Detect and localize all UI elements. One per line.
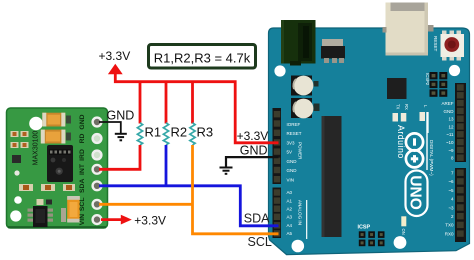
module silkscreen MAX30100 text xyxy=(33,131,40,166)
svg-text:ICSP: ICSP xyxy=(358,224,371,230)
wire: R2 drop to SDA line (blue) xyxy=(165,145,168,186)
svg-text:RX: RX xyxy=(404,104,409,110)
mounting hole bottom middle-left xyxy=(292,240,305,253)
DIGITAL silkscreen label xyxy=(429,140,434,176)
wire: R3 to Arduino A5 (orange) xyxy=(193,145,279,234)
digital header lower labels xyxy=(445,171,454,237)
MAX30100 sensor module board xyxy=(7,108,108,228)
svg-text:12: 12 xyxy=(448,124,454,129)
UNO badge xyxy=(406,171,428,217)
ICSP2 silkscreen label xyxy=(425,73,430,86)
svg-text:RD: RD xyxy=(79,134,86,144)
value box R1,R2,R3 = 4.7k xyxy=(149,45,256,69)
TX RX LEDs xyxy=(393,104,410,122)
wire: bus drop to R2 xyxy=(165,82,168,124)
svg-text:ICSP2: ICSP2 xyxy=(425,73,430,86)
GND label at Arduino xyxy=(240,143,268,157)
SMD resistor row on module xyxy=(19,184,75,191)
silkscreen line analog xyxy=(306,200,307,239)
POWER silkscreen label xyxy=(298,142,303,160)
svg-text:Arduino: Arduino xyxy=(396,125,406,159)
USB connector xyxy=(383,3,434,56)
MAX30100 sensor chip U1 xyxy=(47,145,73,182)
mounting hole bottom middle-right xyxy=(394,236,407,249)
svg-text:MAX30100: MAX30100 xyxy=(33,131,40,166)
capacitor C-top1 on module xyxy=(42,113,71,127)
svg-text:A4: A4 xyxy=(287,223,293,228)
small SMD parts near caps xyxy=(314,81,320,111)
microcontroller IC ATmega328 xyxy=(322,116,342,237)
svg-text:13: 13 xyxy=(448,117,454,122)
node: VIN +3.3V arrow xyxy=(121,215,132,225)
svg-text:SDA: SDA xyxy=(244,211,270,225)
power header strip xyxy=(273,108,282,184)
ON LED xyxy=(401,216,407,234)
digital header upper labels xyxy=(441,101,454,161)
GND label top-left xyxy=(107,109,135,123)
Arduino logo text xyxy=(396,125,406,159)
digital header strip lower xyxy=(455,168,466,242)
USB interface chip xyxy=(387,78,407,99)
ICSP2 header xyxy=(430,72,448,97)
+3.3V label top xyxy=(99,49,131,63)
wire: bus drop to R3 xyxy=(191,82,194,124)
svg-text:5V: 5V xyxy=(287,150,293,155)
svg-text:IOREF: IOREF xyxy=(287,122,301,127)
node: +3.3V arrow xyxy=(108,64,123,74)
ICSP silkscreen label xyxy=(358,224,371,230)
resistor R1 xyxy=(137,123,142,145)
wire: +3.3V bus (red) xyxy=(115,74,278,143)
svg-text:R2: R2 xyxy=(171,125,188,140)
module pin RD xyxy=(93,134,102,143)
svg-text:R3: R3 xyxy=(197,125,214,140)
analog header strip xyxy=(273,188,282,239)
resistor R3 xyxy=(190,123,195,145)
+3.3V label at Arduino xyxy=(237,129,269,143)
R2 label xyxy=(171,125,188,140)
mounting hole bottom-left xyxy=(10,196,22,221)
svg-text:+3.3V: +3.3V xyxy=(99,49,131,63)
wire: R1 to module INT pin (red) xyxy=(99,145,140,169)
svg-text:DIGITAL (PWM~): DIGITAL (PWM~) xyxy=(429,140,434,176)
wire: module GND to ground xyxy=(99,122,121,133)
small SMD resistors left cluster xyxy=(11,131,29,148)
module pin SCL xyxy=(93,200,102,209)
ground symbol at Arduino xyxy=(220,168,233,174)
RESET silkscreen label xyxy=(433,36,438,52)
svg-text:SCL: SCL xyxy=(248,235,272,249)
tantalum capacitor C3 on module xyxy=(61,196,80,223)
wire: module SCL to R3 drop (orange) xyxy=(99,203,193,206)
svg-text:3V3: 3V3 xyxy=(287,141,296,146)
resistor R2 xyxy=(163,123,168,145)
voltage regulator xyxy=(321,39,345,63)
digital header strip upper xyxy=(455,83,466,162)
module bottom edge shading xyxy=(8,226,106,228)
svg-text:UNO: UNO xyxy=(406,175,423,209)
svg-text:R1,R2,R3 = 4.7k: R1,R2,R3 = 4.7k xyxy=(154,51,251,66)
svg-text:~11: ~11 xyxy=(446,132,454,137)
svg-text:ON: ON xyxy=(401,229,406,235)
svg-text:~6: ~6 xyxy=(448,179,454,184)
ICSP header xyxy=(359,231,385,246)
svg-text:TX0: TX0 xyxy=(445,223,454,228)
mounting hole near power jack xyxy=(274,65,285,76)
svg-text:RESET: RESET xyxy=(287,131,302,136)
svg-text:A3: A3 xyxy=(287,215,293,220)
power header labels xyxy=(287,122,302,183)
svg-text:SDA: SDA xyxy=(79,179,86,193)
Arduino UNO board xyxy=(269,28,470,255)
svg-text:TX: TX xyxy=(396,104,401,110)
+3.3V label bottom xyxy=(134,213,166,227)
svg-text:SCL: SCL xyxy=(79,197,86,211)
module pin INT xyxy=(93,165,102,174)
svg-text:R1: R1 xyxy=(145,125,162,140)
svg-text:VIN: VIN xyxy=(287,177,295,182)
svg-text:ANALOG IN: ANALOG IN xyxy=(298,200,303,225)
IC U2 on module xyxy=(28,199,54,227)
SCL label xyxy=(248,235,272,249)
module pin SDA xyxy=(93,181,102,190)
svg-text:GND: GND xyxy=(240,143,268,157)
ground symbol left xyxy=(115,134,127,141)
svg-text:POWER: POWER xyxy=(298,142,303,160)
R3 label xyxy=(197,125,214,140)
svg-text:+3.3V: +3.3V xyxy=(134,213,166,227)
svg-text:INT: INT xyxy=(79,163,86,175)
svg-text:IRD: IRD xyxy=(79,149,86,161)
svg-text:~9: ~9 xyxy=(448,148,454,153)
wire: module VIN stub (red) xyxy=(101,218,122,221)
wire: bus drop to R1 xyxy=(139,82,142,124)
R1 label xyxy=(145,125,162,140)
svg-text:GND: GND xyxy=(79,114,86,129)
reset button SW1 xyxy=(441,31,465,61)
svg-text:GND: GND xyxy=(444,109,455,114)
module pin IRD xyxy=(93,151,102,160)
svg-text:GND: GND xyxy=(287,159,298,164)
wire: ground to Arduino GND (black) xyxy=(226,157,279,167)
SDA label xyxy=(244,211,270,225)
svg-text:RESET: RESET xyxy=(433,36,438,52)
svg-text:~10: ~10 xyxy=(446,140,454,145)
wire: module SDA to Arduino A4 (blue) xyxy=(99,186,279,226)
svg-text:GND: GND xyxy=(107,109,135,123)
analog header labels xyxy=(287,190,293,236)
svg-text:VIN: VIN xyxy=(79,214,86,225)
module pin GND xyxy=(93,118,102,127)
Arduino logo infinity xyxy=(406,112,427,170)
svg-text:A0: A0 xyxy=(287,190,293,195)
svg-text:AREF: AREF xyxy=(441,101,453,106)
ANALOG IN silkscreen label xyxy=(298,200,303,225)
electrolytic capacitor CE1 xyxy=(291,76,313,96)
svg-text:~3: ~3 xyxy=(448,205,454,210)
small SMD part left xyxy=(12,155,21,176)
svg-text:A2: A2 xyxy=(287,206,293,211)
L LED xyxy=(420,105,429,133)
svg-text:RX0: RX0 xyxy=(445,231,454,236)
svg-text:~5: ~5 xyxy=(448,188,454,193)
mounting hole near reset xyxy=(449,65,460,76)
capacitor C-top2 on module xyxy=(41,130,71,144)
module pin VIN xyxy=(93,215,102,224)
DC power jack J1 xyxy=(281,20,316,66)
module pin labels xyxy=(79,114,86,225)
svg-text:A1: A1 xyxy=(287,198,293,203)
svg-text:+3.3V: +3.3V xyxy=(237,129,269,143)
svg-text:GND: GND xyxy=(287,168,298,173)
electrolytic capacitor CE2 xyxy=(291,98,313,118)
svg-text:A5: A5 xyxy=(287,231,293,236)
mounting hole top-left xyxy=(29,117,43,131)
